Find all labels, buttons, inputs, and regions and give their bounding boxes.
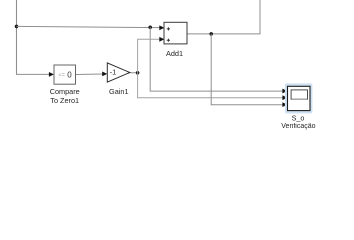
- wire: left corner to Compare input: [16, 73, 50, 75]
- wire: left feedback vertical: [16, 0, 18, 74]
- plus sign input 1: [167, 27, 170, 30]
- block scope S_o Verificação (selected halo): [281, 83, 315, 130]
- block Gain1: [107, 63, 130, 96]
- node: junction J4 on Add1 output: [209, 32, 213, 36]
- block Add1: [164, 22, 187, 58]
- wire: J4 down and right to scope input 3: [211, 34, 283, 105]
- arrowhead into Compare To Zero1: [49, 72, 54, 77]
- arrowhead into scope input 1: [282, 89, 287, 94]
- node: junction J1 on left vertical: [15, 25, 19, 29]
- wire: J1 to Add1 input 1: [17, 26, 161, 27]
- arrowhead into Add1 input 2: [159, 37, 164, 42]
- node: junction J2 feeding scope input 1: [148, 26, 152, 30]
- node: junction J3 at Gain1 output: [136, 71, 140, 75]
- plus sign input 2: [167, 39, 170, 42]
- wire: Add1 output to top-right riser: [187, 0, 260, 34]
- svg-text:Verificação: Verificação: [281, 123, 315, 130]
- wire: J3 down and right to scope input 2: [138, 73, 283, 98]
- svg-text:Gain1: Gain1: [109, 87, 128, 96]
- svg-text:Compare: Compare: [50, 87, 80, 96]
- svg-text:-1: -1: [110, 68, 117, 77]
- wire: Compare output to Gain1 input: [76, 73, 103, 76]
- arrowhead into Add1 input 1: [159, 25, 164, 30]
- arrowhead into scope input 3: [282, 102, 287, 107]
- svg-text:<=: <=: [58, 73, 64, 79]
- arrowhead into scope input 2: [282, 95, 287, 100]
- svg-text:To Zero1: To Zero1: [50, 96, 79, 105]
- block Compare To Zero1: [50, 65, 80, 105]
- svg-text:0: 0: [67, 71, 72, 80]
- svg-text:Add1: Add1: [166, 49, 183, 58]
- wire: J3 up and right to Add1 input 2: [138, 39, 160, 73]
- svg-text:S_o: S_o: [292, 114, 305, 123]
- wire: Gain1 output stub: [130, 72, 138, 74]
- arrowhead into Gain1: [102, 72, 107, 77]
- wire: J2 down and right to scope input 1: [150, 27, 283, 91]
